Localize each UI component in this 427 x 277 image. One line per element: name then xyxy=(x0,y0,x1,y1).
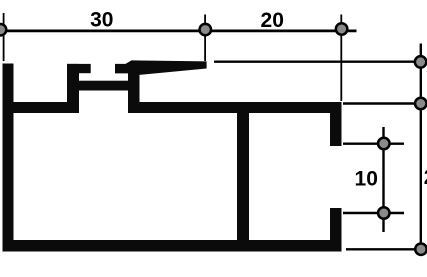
handle notch upper xyxy=(378,138,390,150)
extension line right xyxy=(340,15,342,102)
handle top-left xyxy=(0,24,6,36)
handle top-middle xyxy=(200,24,212,35)
slot bottom bar xyxy=(75,81,128,91)
handle bottom-right xyxy=(415,243,427,255)
notch dimension vertical xyxy=(382,127,384,232)
right dimension vertical xyxy=(420,44,422,250)
tab 1 xyxy=(67,64,91,73)
notch upper line xyxy=(343,142,404,144)
upper-right horizontal bar xyxy=(128,102,342,113)
handle notch lower xyxy=(378,207,390,219)
svg-text:30: 30 xyxy=(90,8,113,31)
profile silhouette xyxy=(3,60,342,251)
line at profile bottom xyxy=(346,248,421,250)
central web xyxy=(237,113,249,240)
right wall top stub xyxy=(330,102,342,146)
top dimension line xyxy=(1,29,357,32)
riser 1 xyxy=(67,64,79,105)
handle right at flange level xyxy=(415,56,427,68)
mid-left horizontal bar xyxy=(3,102,80,113)
tab2 + top flange + riser 2 xyxy=(115,60,207,113)
right wall bottom stub xyxy=(330,208,342,252)
bottom bar xyxy=(3,240,342,252)
line at upper bar level xyxy=(343,102,421,104)
extension line middle xyxy=(204,15,206,62)
handle top-right xyxy=(336,23,348,35)
dimension labels xyxy=(90,8,427,190)
handle right at bar level xyxy=(415,98,427,110)
line at flange top level xyxy=(214,61,421,63)
svg-text:10: 10 xyxy=(355,167,378,190)
notch lower line xyxy=(343,212,404,214)
left wall xyxy=(3,64,14,252)
extension line left xyxy=(3,13,5,61)
svg-text:20: 20 xyxy=(261,9,284,32)
